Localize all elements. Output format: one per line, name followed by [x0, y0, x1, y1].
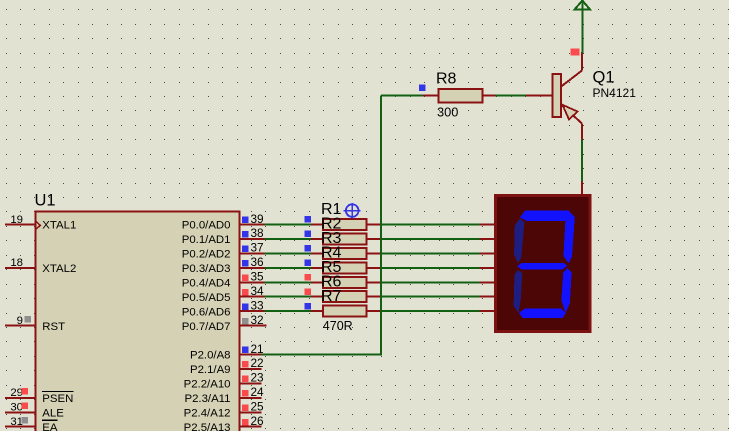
pin label P2.5/A13 — [184, 422, 231, 431]
svg-text:P2.3/A11: P2.3/A11 — [184, 393, 230, 405]
pin 36 stub — [240, 267, 265, 269]
microcontroller U1 — [35, 211, 239, 431]
pin number 24 — [242, 385, 264, 399]
pin number 35 — [242, 270, 264, 284]
pin number 33 — [242, 298, 264, 312]
wire pin34 to R6 — [264, 296, 311, 298]
pin 34 stub — [240, 296, 265, 298]
pin 21 stub — [240, 354, 262, 356]
pin label P0.7/AD7 — [182, 321, 231, 333]
pin label P0.2/AD2 — [182, 249, 231, 261]
svg-text:P0.0/AD0: P0.0/AD0 — [182, 220, 231, 232]
display pin stub seg 4 — [479, 267, 495, 269]
pin 24 stub — [240, 397, 262, 399]
power terminal — [574, 1, 590, 10]
pin label RST — [42, 321, 65, 333]
wire collector to power — [581, 0, 583, 53]
svg-text:ALE: ALE — [42, 408, 64, 420]
pin 9 stub — [5, 325, 36, 327]
svg-text:470R: 470R — [323, 319, 353, 333]
display pin stub seg 2 — [479, 238, 495, 240]
svg-text:P0.3/AD3: P0.3/AD3 — [182, 263, 231, 275]
wire pin35 to R5 — [264, 281, 311, 283]
svg-text:32: 32 — [251, 313, 264, 327]
pin 35 stub — [240, 281, 265, 283]
segment a (lit) — [520, 210, 575, 221]
resistor R3 — [305, 245, 381, 259]
pin label P0.3/AD3 — [182, 263, 231, 275]
pin label P2.2/A10 — [184, 379, 231, 391]
svg-text:R8: R8 — [436, 71, 457, 88]
svg-text:Q1: Q1 — [593, 69, 615, 87]
svg-text:P2.5/A13: P2.5/A13 — [184, 422, 231, 431]
pin label PSEN — [42, 391, 74, 405]
wire pin36 to R4 — [264, 267, 311, 269]
svg-text:PN4121: PN4121 — [593, 86, 637, 100]
label R6 — [321, 273, 342, 290]
7-segment display body — [496, 196, 591, 332]
svg-text:RST: RST — [42, 321, 65, 333]
transistor Q1 body — [553, 71, 583, 124]
label R7 — [321, 288, 342, 305]
pin number 23 — [242, 371, 264, 385]
pin 19 stub — [5, 224, 36, 226]
pin number 9 — [17, 315, 31, 327]
svg-text:25: 25 — [251, 400, 265, 414]
wire R2 to display — [381, 238, 479, 240]
pin label P2.4/A12 — [184, 408, 231, 420]
wire R8 to Q1 base — [495, 94, 526, 96]
pin label P2.3/A11 — [184, 393, 230, 405]
pin 22 stub — [240, 368, 262, 370]
pin number 31 — [10, 416, 28, 428]
wire R6 to display — [381, 296, 479, 298]
label R8 — [436, 71, 457, 88]
pin label P0.0/AD0 — [182, 220, 231, 232]
segment c (lit) — [561, 268, 571, 313]
value 470R — [323, 319, 353, 333]
wire R3 to display — [381, 252, 479, 254]
label U1 — [35, 192, 56, 210]
svg-text:36: 36 — [251, 255, 265, 269]
svg-text:38: 38 — [251, 226, 265, 240]
pin 33 stub — [240, 310, 265, 312]
svg-text:P0.6/AD6: P0.6/AD6 — [182, 306, 231, 318]
segment f (dim) — [514, 219, 524, 264]
collector wire red — [581, 52, 583, 71]
wire R5 to display — [381, 281, 479, 283]
pin 31 stub — [5, 426, 36, 428]
svg-text:31: 31 — [10, 416, 23, 428]
display pin stub seg 3 — [479, 252, 495, 254]
svg-text:XTAL1: XTAL1 — [42, 220, 76, 232]
svg-text:26: 26 — [251, 414, 265, 428]
pin 25 stub — [240, 411, 262, 413]
label R2 — [321, 216, 342, 233]
resistor R4 — [305, 260, 381, 274]
svg-text:37: 37 — [251, 241, 264, 255]
emitter wire red into display — [581, 181, 583, 196]
segment b (lit) — [563, 217, 574, 264]
pin number 37 — [242, 241, 263, 255]
pin number 36 — [242, 255, 264, 269]
svg-text:P0.5/AD5: P0.5/AD5 — [182, 292, 231, 304]
clipped pin number 27 — [251, 430, 264, 431]
display pin stub seg 7 — [479, 310, 495, 312]
label R3 — [321, 230, 342, 247]
wire pin38 to R2 — [264, 238, 311, 240]
pin label XTAL2 — [42, 263, 76, 275]
pin label EA — [42, 420, 58, 431]
pin number 22 — [242, 356, 263, 370]
resistor R7 — [305, 303, 381, 317]
resistor R6 — [305, 288, 381, 302]
svg-text:P0.7/AD7: P0.7/AD7 — [182, 321, 231, 333]
wire R7 to display — [381, 310, 479, 312]
wire pin39 to R1 — [264, 224, 311, 226]
label Q1 — [593, 69, 615, 87]
collector pin-end marker — [571, 48, 580, 55]
pin number 18 — [10, 257, 23, 269]
svg-text:P2.0/A8: P2.0/A8 — [190, 350, 231, 362]
svg-text:U1: U1 — [35, 192, 56, 210]
pin number 29 — [10, 387, 28, 399]
label R5 — [321, 259, 342, 276]
svg-text:33: 33 — [251, 298, 265, 312]
svg-text:23: 23 — [251, 371, 265, 385]
resistor R1 — [305, 216, 381, 230]
svg-text:19: 19 — [10, 214, 23, 226]
wire pin33 to R7 — [264, 310, 311, 312]
svg-text:P0.4/AD4: P0.4/AD4 — [182, 278, 231, 290]
pin number 21 — [242, 342, 263, 356]
svg-text:39: 39 — [251, 212, 264, 226]
svg-text:P2.4/A12: P2.4/A12 — [184, 408, 231, 420]
pin number 38 — [242, 226, 264, 240]
pin label P2.1/A9 — [190, 364, 231, 376]
value 300 — [437, 105, 458, 120]
pin 18 stub — [5, 267, 36, 269]
svg-text:9: 9 — [17, 315, 23, 327]
svg-text:29: 29 — [10, 387, 23, 399]
svg-text:XTAL2: XTAL2 — [42, 263, 76, 275]
svg-text:R7: R7 — [321, 288, 342, 305]
svg-text:300: 300 — [437, 105, 458, 120]
clock chevron on XTAL1 — [36, 221, 41, 230]
pin label P2.0/A8 — [190, 350, 231, 362]
emitter wire green — [581, 140, 583, 182]
pin number 19 — [10, 214, 23, 226]
svg-text:22: 22 — [251, 356, 264, 370]
pin number 39 — [242, 212, 263, 226]
svg-text:P0.1/AD1: P0.1/AD1 — [182, 234, 231, 246]
pin label P0.6/AD6 — [182, 306, 231, 318]
svg-text:P2.2/A10: P2.2/A10 — [184, 379, 231, 391]
wire P2.0 pin21 horizontal — [262, 354, 381, 356]
pin label XTAL1 — [42, 220, 76, 232]
pin 23 stub — [240, 382, 262, 384]
pin number 25 — [242, 400, 264, 414]
segment e (dim) — [514, 270, 523, 313]
pin 30 stub — [5, 411, 36, 413]
pin 26 stub — [240, 426, 262, 428]
wire R1 to display — [381, 224, 479, 226]
pin 39 stub — [240, 224, 265, 226]
pin number 34 — [242, 284, 264, 298]
svg-text:24: 24 — [251, 385, 265, 399]
pin label ALE — [42, 408, 64, 420]
resistor R8 — [419, 85, 495, 103]
wire R4 to display — [381, 267, 479, 269]
pin 29 stub — [5, 397, 36, 399]
label R4 — [321, 245, 342, 262]
svg-text:EA: EA — [42, 422, 58, 431]
resistor R5 — [305, 274, 381, 288]
svg-text:P0.2/AD2: P0.2/AD2 — [182, 249, 231, 261]
pin number 26 — [242, 414, 264, 428]
transistor Q1 base stub — [526, 94, 553, 96]
pin number 30 — [10, 402, 28, 414]
wire pin37 to R3 — [264, 252, 311, 254]
pin 37 stub — [240, 252, 265, 254]
svg-text:34: 34 — [251, 284, 265, 298]
value PN4121 — [593, 86, 637, 100]
pin label P0.4/AD4 — [182, 278, 231, 290]
label R1 — [321, 201, 342, 218]
pin 32 stub — [240, 325, 267, 327]
pin label P0.1/AD1 — [182, 234, 231, 246]
svg-text:35: 35 — [251, 270, 265, 284]
segment d (lit) — [519, 309, 566, 318]
resistor R2 — [305, 231, 381, 245]
svg-text:P2.1/A9: P2.1/A9 — [190, 364, 231, 376]
origin crosshair marker at R1 — [344, 203, 361, 218]
wire vertical net x381 — [380, 95, 382, 355]
emitter wire red upper — [581, 124, 583, 140]
svg-text:PSEN: PSEN — [42, 393, 73, 405]
segment g (lit) — [517, 263, 567, 270]
display pin stub seg 5 — [479, 281, 495, 283]
display pin stub seg 1 — [479, 224, 495, 226]
pin number 32 — [242, 313, 263, 327]
pin 38 stub — [240, 238, 265, 240]
display pin stub seg 6 — [479, 296, 495, 298]
wire to R8 — [381, 94, 423, 96]
svg-text:18: 18 — [10, 257, 23, 269]
svg-text:30: 30 — [10, 402, 23, 414]
pin label P0.5/AD5 — [182, 292, 231, 304]
